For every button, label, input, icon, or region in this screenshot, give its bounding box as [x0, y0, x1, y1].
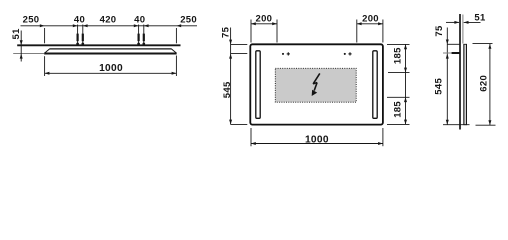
ext line right mirror edge upper [175, 28, 177, 43]
glass top cap [463, 43, 467, 45]
left chamfer [44, 49, 49, 53]
dim 200 left ext lines [250, 20, 252, 43]
svg-text:75: 75 [434, 25, 445, 37]
svg-text:545: 545 [222, 81, 233, 98]
side dim 75 arrow down [446, 40, 449, 45]
mounting dot right B (cross) [348, 52, 351, 55]
dim 1000 front line [251, 143, 383, 145]
dim 51 arrow up [20, 54, 23, 59]
svg-text:40: 40 [134, 15, 145, 26]
right dim line 185/185 [405, 44, 407, 124]
ext hanger line [231, 53, 248, 55]
side ext bottom [443, 124, 470, 126]
glass bottom cap [463, 124, 467, 126]
dim 200 left line [251, 23, 277, 25]
dim 1000 top view line [45, 72, 177, 74]
dim 1000 front ext lines [250, 128, 252, 146]
dim 51 arrow left [464, 21, 469, 24]
right ext lines [387, 43, 410, 45]
mounting dot left A [282, 53, 284, 55]
ext top edge [231, 43, 248, 45]
svg-text:40: 40 [74, 15, 85, 26]
dim 51 arrow right [454, 21, 459, 24]
mirror outline [250, 44, 383, 124]
left light strip [256, 51, 260, 119]
dim 51 arrow down [20, 40, 23, 45]
svg-text:200: 200 [256, 14, 273, 25]
chain arrow at 44.6 right [40, 24, 45, 27]
svg-text:51: 51 [11, 28, 22, 40]
side hanger gray ext [443, 52, 452, 54]
side shared arrow up [446, 54, 449, 59]
svg-text:185: 185 [393, 47, 404, 64]
pin pair 1 right pin [81, 25, 84, 46]
top dim chain line [21, 25, 198, 27]
dim 200 right line [357, 23, 383, 25]
dim 51 left tail [446, 21, 459, 23]
chain arrow at 82.8 left [83, 24, 88, 27]
dim 51 right tail [464, 21, 481, 23]
dim 620 arrow down [488, 120, 491, 125]
ext line left mirror edge lower [44, 56, 46, 76]
side dim 545 arrow down [446, 120, 449, 125]
svg-text:51: 51 [474, 12, 486, 23]
chain arrow at 138.6 right [134, 24, 139, 27]
svg-text:545: 545 [434, 78, 445, 95]
dim 1000 front arrows [251, 142, 256, 145]
pin pair 1 left pin [76, 25, 79, 46]
dim 75 arrow down [229, 40, 232, 45]
mounting dot left B (cross) [287, 52, 290, 55]
dim 51 line [20, 31, 22, 62]
gray extension front edge [13, 53, 44, 55]
ext line left mirror edge upper [44, 28, 46, 43]
left dim line 75+545 [230, 28, 232, 125]
glass front line [465, 44, 467, 124]
svg-text:620: 620 [478, 75, 489, 92]
shared arrow up at hanger [229, 54, 232, 59]
svg-text:420: 420 [100, 15, 117, 26]
svg-text:200: 200 [362, 14, 379, 25]
wall line vertical [459, 14, 461, 130]
dim 620 bottom ext [476, 124, 496, 126]
svg-text:75: 75 [221, 26, 232, 38]
chain arrow at 176.4 left [176, 24, 181, 27]
side hanger bracket [452, 52, 460, 54]
glass back line [463, 44, 465, 124]
dim 200 left arrows [251, 22, 256, 25]
chain arrow at 143.8 left [144, 24, 149, 27]
right light strip [373, 51, 377, 119]
ext bottom edge [231, 123, 248, 125]
dim 545 arrow down [229, 120, 232, 125]
right chamfer [171, 49, 176, 53]
side ext top edge [447, 43, 460, 45]
dim 185 top arrows [404, 44, 407, 49]
pin pair 2 right pin [142, 25, 145, 46]
dim 620 arrow up [488, 44, 491, 49]
dim 200 right ext lines [356, 20, 358, 43]
side dim line 75+545 [446, 28, 448, 125]
lightning bolt [312, 73, 320, 96]
dim 620 top ext [473, 43, 493, 45]
gray ext of glass to 51 dim [462, 15, 464, 44]
mounting dot right A [344, 53, 346, 55]
dim 200 right arrows [357, 22, 362, 25]
svg-text:250: 250 [180, 15, 197, 26]
svg-text:250: 250 [23, 15, 40, 26]
chain arrow at 77.6 right [73, 24, 78, 27]
ext line right mirror edge lower [175, 56, 177, 77]
wall line [17, 44, 180, 46]
dim 1000 arrow left [45, 72, 50, 75]
dim 1000 arrow right [172, 72, 177, 75]
svg-text:1000: 1000 [99, 63, 123, 74]
svg-text:185: 185 [393, 101, 404, 118]
mirror front edge [44, 53, 176, 55]
dim 620 line [489, 44, 491, 125]
electrical gray box [275, 68, 356, 102]
mirror back edge [50, 48, 172, 50]
svg-text:1000: 1000 [305, 134, 329, 145]
dim 185 bottom arrows [404, 97, 407, 102]
pin pair 2 left pin [137, 25, 140, 46]
